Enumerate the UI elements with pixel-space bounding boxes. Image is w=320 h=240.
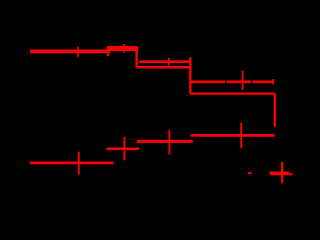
histogram H1 bin4 level line <box>190 92 274 94</box>
data point P4 error bar right end tick <box>272 79 274 84</box>
histogram H1 bin3 level line <box>137 66 191 69</box>
data point P3 error bar right end tick merged with histogram H1 step connector bin3 to bin4 <box>189 57 191 93</box>
ratio point R5 upper horizontal error bar <box>269 172 289 174</box>
data point P2 vertical error bar <box>123 44 125 53</box>
small dash left of ratio point R5 <box>248 172 252 174</box>
data point P4 horizontal error bar (slightly dashed rendering) <box>191 81 274 84</box>
ratio point R3 vertical error bar <box>168 130 170 155</box>
data point P1 vertical error bar <box>77 47 79 57</box>
ratio point R2 vertical error bar <box>123 137 125 160</box>
ratio point R5 vertical error bar <box>281 162 283 183</box>
ratio point R2 horizontal error bar <box>107 147 140 150</box>
histogram H1 bin1 level line merged with data point P1 horizontal error bar <box>30 50 110 54</box>
data point P3 horizontal error bar <box>139 60 189 63</box>
ratio point R1 vertical error bar <box>78 152 80 175</box>
histogram H1 step connector bin4 to bin5 clipped at frame bottom <box>274 94 276 127</box>
ratio point R4 horizontal error bar <box>191 134 275 137</box>
ratio point R1 horizontal error bar <box>30 161 114 164</box>
data point P4 vertical error bar <box>242 71 244 90</box>
ratio point R3 horizontal error bar <box>137 140 193 143</box>
histogram H1 step connector bin2 to bin3 <box>135 47 137 67</box>
ratio point R4 vertical error bar <box>240 123 242 149</box>
histogram H1 bin2 level line merged with data point P2 horizontal error bar <box>107 46 138 51</box>
data point P3 vertical error bar <box>168 58 170 66</box>
ratio point R5 lower horizontal error bar <box>270 173 293 175</box>
data point P1 error bar right end tick <box>107 47 109 56</box>
